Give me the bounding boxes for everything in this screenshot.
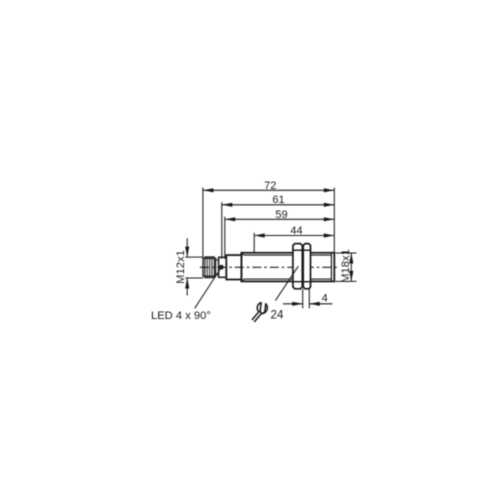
svg-text:72: 72 [264,180,276,192]
svg-text:4: 4 [322,293,328,305]
svg-text:44: 44 [290,225,302,237]
svg-text:M18x1: M18x1 [340,249,352,283]
svg-text:24: 24 [271,309,284,322]
svg-text:59: 59 [275,209,287,221]
svg-text:61: 61 [272,194,284,206]
svg-text:M12x1: M12x1 [175,250,187,284]
svg-text:LED 4 x 90°: LED 4 x 90° [151,310,211,322]
